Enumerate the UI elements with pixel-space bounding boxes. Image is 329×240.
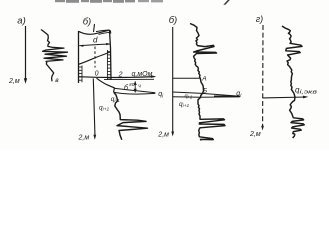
svg-text:ч: ч bbox=[138, 83, 141, 89]
svg-text:2,м: 2,м bbox=[157, 131, 169, 138]
svg-text:2,м: 2,м bbox=[249, 131, 261, 138]
svg-text:в: в bbox=[55, 77, 59, 84]
svg-text:2,м: 2,м bbox=[78, 135, 90, 142]
svg-text:q,мОм: q,мОм bbox=[132, 71, 153, 78]
svg-text:б): б) bbox=[169, 15, 178, 26]
svg-text:2: 2 bbox=[118, 71, 123, 78]
svg-text:d: d bbox=[93, 35, 98, 44]
svg-text:qi-1: qi-1 bbox=[185, 93, 193, 99]
svg-text:г): г) bbox=[256, 14, 263, 24]
svg-text:а): а) bbox=[17, 15, 25, 26]
svg-text:2,м: 2,м bbox=[8, 78, 20, 85]
svg-text:0: 0 bbox=[95, 71, 99, 78]
svg-text:б): б) bbox=[83, 17, 92, 28]
svg-text:А: А bbox=[201, 75, 206, 82]
